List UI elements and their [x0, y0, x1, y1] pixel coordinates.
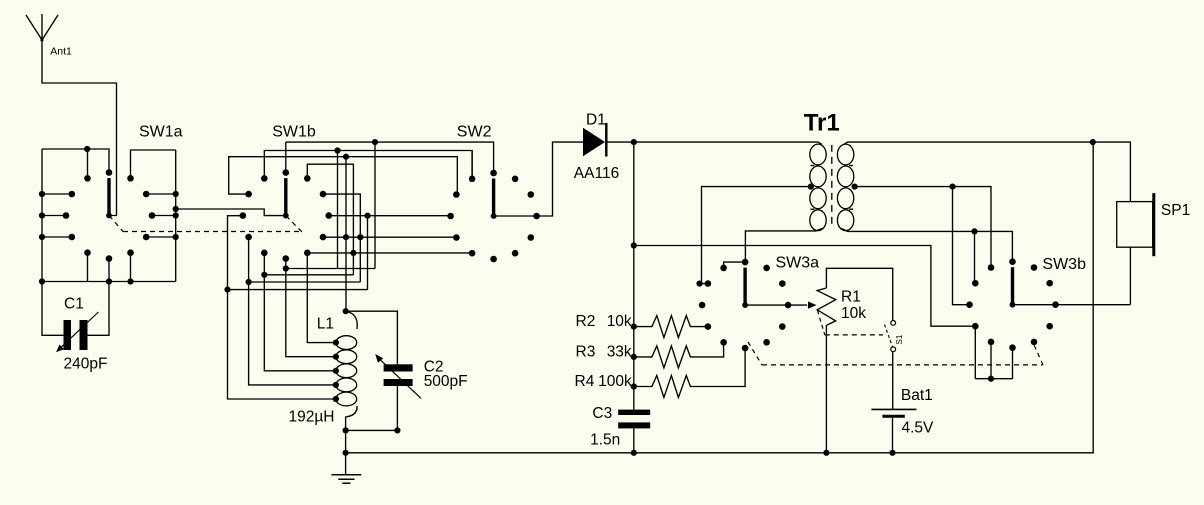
wire SW2 NNW stub — [471, 151, 473, 179]
wire SW1a left rail — [41, 149, 43, 282]
wire SP1 bottom — [1129, 247, 1131, 305]
wire SW1a ENE stub — [146, 193, 176, 195]
wire SW3b S down — [1012, 348, 1014, 379]
svg-text:R1: R1 — [841, 289, 861, 306]
resistor R3 — [634, 342, 724, 368]
svg-text:C3: C3 — [592, 405, 612, 422]
wire SW1a WSW stub — [42, 236, 72, 238]
wire S1 to battery — [892, 352, 894, 410]
wire SW3b SSW down — [990, 342, 992, 379]
svg-text:Ant1: Ant1 — [50, 46, 72, 58]
resistor R4 — [634, 348, 745, 397]
rotary switch SW1a — [106, 169, 113, 176]
wire SW1b NNE line — [307, 164, 353, 275]
wire R1 bottom to rail — [825, 325, 827, 452]
wire tap to SW3b W — [953, 187, 970, 305]
svg-text:SW3b: SW3b — [1042, 256, 1086, 273]
wire SW1b ESE row to SW2 WSW — [323, 236, 456, 238]
C1 variable arrow — [60, 312, 98, 348]
wire left rail to C1 — [42, 282, 64, 336]
svg-text:R4: R4 — [575, 373, 595, 390]
svg-text:SW2: SW2 — [457, 124, 492, 141]
wire S stub link — [286, 259, 375, 269]
wire E link down — [367, 216, 369, 290]
wire SW1b E row to SW2 W — [329, 215, 451, 217]
switch S1 — [891, 321, 896, 326]
svg-text:Bat1: Bat1 — [901, 387, 933, 404]
transformer Tr1 secondary winding — [837, 144, 853, 165]
wire SW1a NNE stub — [131, 150, 176, 178]
wire SW1b NNW line — [264, 151, 472, 179]
potentiometer R1 zigzag — [817, 288, 836, 325]
wire SW1a W stub — [42, 215, 66, 217]
wire battery to rail — [892, 418, 894, 453]
wire NNW line vertical — [337, 151, 339, 269]
wire Tr1 primary bottom to SW3a — [745, 229, 822, 263]
dashed gang link SW1a-SW1b — [109, 216, 123, 232]
svg-text:SW1b: SW1b — [272, 124, 316, 141]
wire L1 top — [345, 157, 347, 312]
wire NNE link to SSW — [264, 274, 353, 276]
svg-text:C1: C1 — [64, 296, 84, 313]
wire SW1a NNW stub — [87, 149, 89, 178]
wire SW1b N to top line — [285, 142, 287, 173]
wire SW1b WNW line — [229, 157, 458, 195]
svg-text:10k: 10k — [841, 305, 866, 322]
svg-text:R2: R2 — [576, 313, 596, 330]
wire SW1a to SW1b wiper — [176, 209, 286, 216]
svg-text:R3: R3 — [576, 344, 596, 361]
wire SW1a E stub — [152, 215, 176, 217]
wire R1 top to S1 — [826, 268, 892, 320]
wire SW1b SSE tap1 — [307, 253, 336, 343]
bottom rail wire — [346, 142, 1094, 453]
wire Tr1 secondary tap — [854, 187, 991, 268]
wire SW1a WNW stub — [42, 193, 72, 195]
svg-text:10k: 10k — [607, 313, 632, 330]
svg-text:SP1: SP1 — [1161, 202, 1190, 219]
speaker SP1 — [1117, 202, 1153, 248]
C2 variable arrow — [380, 359, 422, 398]
wire D1 cathode out — [607, 141, 634, 143]
rotary switch SW3a — [742, 259, 749, 266]
wire SW1b SSW tap3 — [264, 253, 336, 371]
battery Bat1 — [871, 408, 916, 410]
transformer Tr1 core — [831, 145, 833, 228]
wire SW1a ESE stub — [146, 236, 176, 238]
diode D1 — [583, 128, 605, 157]
svg-text:Tr1: Tr1 — [804, 110, 840, 137]
wire SW3b WSW down — [974, 326, 976, 379]
svg-text:4.5V: 4.5V — [902, 419, 935, 436]
svg-text:AA116: AA116 — [574, 165, 619, 182]
resistor R2 — [634, 316, 708, 338]
svg-text:D1: D1 — [586, 111, 606, 128]
wire SW3a pole to R1 wiper — [745, 304, 807, 306]
wire SW1a bottom rail — [42, 281, 176, 283]
capacitor C2 plates — [384, 364, 413, 371]
wire SW1a SSW stub — [87, 253, 89, 282]
wire SW1b S tap2 — [286, 269, 336, 357]
ground — [345, 453, 347, 475]
dashed gang link SW3a-SW3b — [748, 342, 762, 365]
wire Tr1 secondary to SP1 top — [844, 142, 1131, 202]
long wire to SW3b WSW — [634, 246, 976, 327]
wire top line vertical — [374, 142, 376, 268]
wire antenna to SW1a wiper — [42, 40, 117, 216]
wire SW2 pole to D1 — [494, 142, 583, 216]
wire SW3b bottom link — [975, 378, 1012, 380]
wire SW1b WSW tap4 — [249, 237, 336, 385]
wire SW1a SSE stub — [130, 253, 132, 282]
wire top line SW1b-SW2 — [286, 142, 494, 173]
wire SW1a top rail — [42, 149, 109, 173]
wire SW3b pole to SP1 — [1013, 304, 1131, 306]
wire SW1a right rail — [175, 150, 177, 282]
wire C1 to S stub — [88, 282, 110, 336]
wire SW1b SSE row to SW2 SSW — [307, 252, 472, 254]
wire ENE link to WSW — [249, 281, 361, 283]
wire Tr1 primary tap — [702, 187, 810, 284]
wire secondary bottom to SW3b WNW — [974, 231, 976, 283]
svg-text:33k: 33k — [607, 344, 632, 361]
wire SW1b W tap5 — [228, 216, 336, 399]
inductor L1 coil — [346, 311, 358, 329]
wire Tr1 secondary bottom — [842, 229, 1013, 262]
svg-text:240pF: 240pF — [64, 356, 108, 373]
svg-text:SW1a: SW1a — [139, 124, 183, 141]
wire C2 bottom — [346, 386, 398, 430]
wire E link to W stub — [228, 289, 368, 291]
wire L1 bottom — [345, 430, 347, 452]
svg-text:192µH: 192µH — [289, 408, 335, 425]
antenna Ant1 — [26, 14, 58, 40]
rotary switch SW2 — [490, 170, 497, 177]
rotary switch SW1b — [283, 169, 290, 176]
L1 tap dots — [333, 340, 339, 346]
svg-text:500pF: 500pF — [424, 373, 468, 390]
wire SW1a S stub — [108, 259, 110, 282]
transformer Tr1 primary winding — [810, 144, 826, 165]
svg-text:1.5n: 1.5n — [590, 432, 620, 449]
wire SW1b ENE line — [323, 194, 360, 282]
svg-text:S1: S1 — [895, 334, 904, 344]
wire Tr1 primary top lead — [634, 142, 822, 144]
wire L1 top to C2 — [346, 311, 398, 364]
wire SW3a N NNW stub — [724, 262, 746, 268]
svg-text:L1: L1 — [317, 315, 334, 332]
svg-text:100k: 100k — [598, 373, 632, 390]
capacitor C1 plates — [64, 320, 72, 350]
dashed link R1-S1 — [818, 311, 825, 335]
rotary switch SW3b — [1009, 258, 1016, 265]
wire C3 bottom — [633, 428, 635, 452]
vertical rail from D1 — [633, 142, 635, 410]
svg-text:SW3a: SW3a — [776, 254, 820, 271]
capacitor C3 plates — [618, 410, 650, 415]
